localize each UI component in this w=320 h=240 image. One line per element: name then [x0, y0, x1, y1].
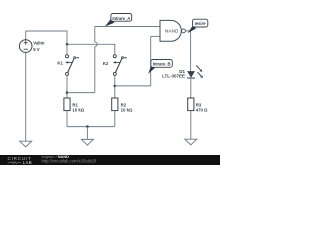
label R1 / 10 kOhm: [72, 103, 84, 113]
wire: K2 bottom to R2 top (node B): [114, 75, 116, 98]
wire: LED to R3: [190, 78, 192, 98]
footer credit text: [42, 154, 97, 164]
svg-text:LTL-307EE: LTL-307EE: [162, 74, 185, 79]
svg-text:5 V: 5 V: [33, 47, 40, 52]
wire: NAND input B: [151, 35, 160, 37]
junction dot bottom rail: [86, 125, 89, 128]
label R2 / 10 kOhm: [121, 103, 133, 113]
wire: node A horizontal: [67, 92, 95, 94]
ground G3 (under R3): [185, 139, 197, 145]
wire: 5V rail to K2 column: [67, 44, 115, 55]
svg-text:http://circuitlab.com/c25e6d2f: http://circuitlab.com/c25e6d2f: [42, 158, 97, 163]
switch K2: [113, 55, 127, 76]
resistor R2: [112, 98, 118, 111]
wire: K1 bottom to R1 top (node A): [66, 75, 68, 98]
flag Intrare_B: [148, 60, 172, 74]
svg-text:Intrare_A: Intrare_A: [112, 16, 130, 21]
label R3 / 470 Ohm: [196, 103, 208, 113]
wire: R3 bottom to ground G3: [190, 111, 192, 140]
svg-text:470 Ω: 470 Ω: [196, 107, 208, 112]
label D1 / LTL-307EE: [162, 69, 185, 79]
wire: source top to top rail corner: [26, 31, 67, 44]
wire: NAND output: [186, 31, 191, 71]
svg-text:K2: K2: [103, 61, 109, 66]
footer logo CIRCUITLAB: [8, 156, 33, 165]
junction dot node B: [114, 85, 117, 88]
wire: R1 bottom to bottom rail: [66, 111, 68, 127]
LED D1: [187, 66, 203, 79]
wire: node B vertical riser: [150, 36, 152, 86]
flag Iesire: [188, 19, 208, 33]
svg-text:NAND: NAND: [165, 28, 179, 33]
wire: NAND input A: [95, 26, 160, 28]
svg-text:Iesire: Iesire: [195, 21, 207, 26]
svg-text:10 kΩ: 10 kΩ: [121, 107, 133, 112]
resistor R1: [64, 98, 70, 111]
svg-text:LAB: LAB: [23, 160, 32, 165]
ground G1 (under source): [20, 141, 32, 147]
svg-text:K1: K1: [57, 61, 63, 66]
junction dot node A: [66, 91, 69, 94]
wire: R2 bottom to bottom rail: [114, 111, 116, 127]
switch K1: [65, 55, 79, 76]
junction dot rail/K1: [66, 43, 69, 46]
voltage source Valim: [19, 40, 32, 53]
NAND gate U1: [160, 20, 185, 41]
flag Intrare_A: [105, 14, 132, 27]
wire: node A vertical riser (with hop over rail): [94, 47, 96, 93]
footer bar: [0, 155, 220, 165]
wire: node B horizontal: [115, 85, 151, 87]
resistor R3: [188, 98, 194, 111]
wire: stub to ground G2: [86, 127, 88, 140]
wire: rail down to K1 top: [66, 44, 68, 55]
svg-text:Intrare_B: Intrare_B: [153, 61, 171, 66]
svg-text:10 kΩ: 10 kΩ: [72, 107, 84, 112]
label Valim / 5 V: [33, 41, 44, 52]
wire: source bottom to ground G1: [25, 52, 27, 141]
svg-text:Valim: Valim: [33, 41, 44, 46]
ground G2 (bottom rail): [81, 139, 93, 145]
wire: bottom rail: [67, 126, 115, 128]
